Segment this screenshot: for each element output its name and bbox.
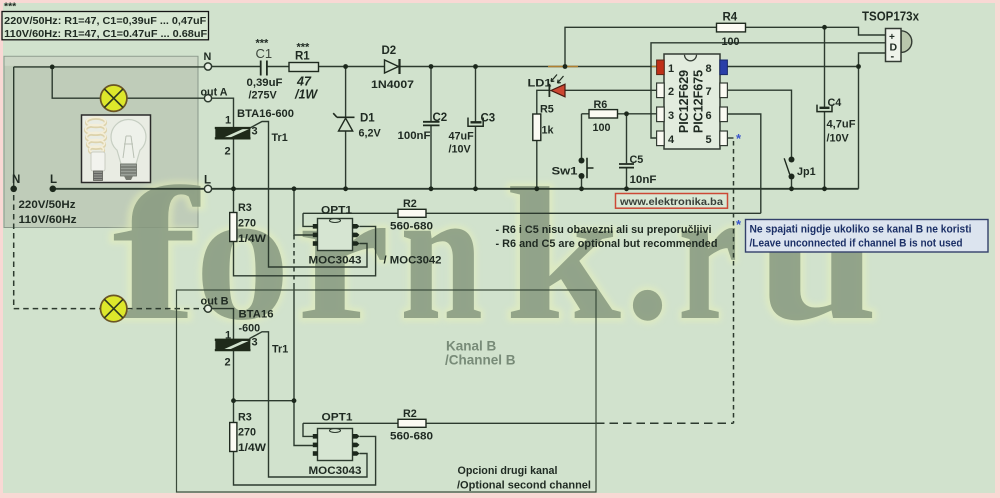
svg-text:4,7uF: 4,7uF [827,119,856,131]
svg-text:100: 100 [722,36,740,48]
svg-text:N: N [204,51,212,63]
svg-text:47uF: 47uF [449,131,475,143]
svg-text:BTA16: BTA16 [239,309,274,321]
svg-text:/ MOC3042: / MOC3042 [384,255,442,267]
svg-text:MOC3043: MOC3043 [309,255,362,267]
svg-text:L: L [50,174,57,186]
svg-text:Jp1: Jp1 [797,166,816,178]
svg-text:***: *** [4,1,17,13]
svg-text:C3: C3 [481,113,496,125]
svg-text:1N4007: 1N4007 [371,79,414,91]
svg-text:OPT1: OPT1 [322,412,353,424]
svg-text:100: 100 [593,122,611,134]
svg-text:10nF: 10nF [630,174,657,186]
svg-text:- R6 and C5 are optional but r: - R6 and C5 are optional but recommended [496,238,718,250]
svg-text:C2: C2 [433,112,448,124]
svg-text:PIC12F629: PIC12F629 [677,70,691,133]
svg-text:R2: R2 [403,198,417,210]
svg-text:R2: R2 [403,408,417,420]
svg-text:Tr1: Tr1 [272,344,288,356]
svg-text:Opcioni drugi kanal: Opcioni drugi kanal [458,465,558,477]
svg-text:R6: R6 [594,99,608,111]
svg-text:270: 270 [238,218,256,230]
svg-text:/Leave unconnected if channel: /Leave unconnected if channel B is not u… [750,238,963,250]
svg-text:8: 8 [706,63,712,75]
svg-text:7: 7 [706,86,712,98]
svg-text:110V/60Hz: R1=47, C1=0.47uF ..: 110V/60Hz: R1=47, C1=0.47uF ... 0.68uF [4,29,207,40]
svg-text:2: 2 [225,146,231,158]
svg-text:D2: D2 [382,45,397,57]
svg-text:k: k [505,150,621,360]
svg-text:0,39uF: 0,39uF [247,77,283,89]
svg-text:r: r [678,150,738,360]
svg-text:/275V: /275V [249,90,278,102]
svg-text:1/4W: 1/4W [238,233,267,245]
svg-text:2: 2 [225,357,231,369]
svg-text:6,2V: 6,2V [359,128,382,140]
svg-text:3: 3 [668,110,674,122]
svg-text:560-680: 560-680 [390,221,433,233]
svg-text:/10V: /10V [449,144,472,156]
svg-text:OPT1: OPT1 [321,205,352,217]
svg-text:560-680: 560-680 [390,431,433,443]
svg-text:/Optional second channel: /Optional second channel [457,480,591,492]
svg-text:R1: R1 [295,51,310,63]
svg-text:220V/50Hz: R1=47, C1=0,39uF ..: 220V/50Hz: R1=47, C1=0,39uF ... 0,47uF [4,16,206,27]
svg-text:270: 270 [238,427,256,439]
svg-text:N: N [12,174,20,186]
svg-text:R3: R3 [238,202,252,214]
svg-text:LD1: LD1 [528,78,552,90]
svg-text:TSOP173x: TSOP173x [862,10,919,24]
svg-text:C5: C5 [630,154,644,166]
svg-text:C1: C1 [256,46,273,61]
svg-text:3: 3 [252,337,258,349]
svg-text:Tr1: Tr1 [272,132,288,144]
svg-text:47: 47 [296,75,312,89]
svg-text:-: - [891,51,895,63]
svg-text:www.elektronika.ba: www.elektronika.ba [619,196,723,208]
svg-text:out B: out B [201,296,229,308]
svg-text:f: f [112,150,202,360]
svg-text:1k: 1k [542,125,555,137]
svg-text:1: 1 [668,63,674,75]
svg-text:/10V: /10V [827,133,850,145]
svg-text:/1W: /1W [294,88,318,102]
svg-text:D1: D1 [360,113,375,125]
svg-text:2: 2 [668,86,674,98]
svg-text:1: 1 [225,330,231,342]
svg-text:4: 4 [668,134,675,146]
svg-text:MOC3043: MOC3043 [309,465,362,477]
svg-text:3: 3 [252,126,258,138]
svg-text:Kanal B: Kanal B [446,339,497,354]
svg-text:1/4W: 1/4W [238,442,267,454]
svg-text:/Channel B: /Channel B [445,353,516,368]
svg-text:u: u [756,150,878,360]
svg-text:-600: -600 [239,323,261,335]
svg-text:Ne spajati nigdje ukoliko se k: Ne spajati nigdje ukoliko se kanal B ne … [750,224,972,236]
svg-text:1: 1 [225,115,231,127]
svg-text:5: 5 [706,134,712,146]
svg-text:220V/50Hz: 220V/50Hz [19,199,77,211]
svg-text:R3: R3 [238,412,252,424]
svg-text:out A: out A [201,87,228,99]
svg-text:6: 6 [706,110,712,122]
svg-text:L: L [204,175,211,187]
svg-text:BTA16-600: BTA16-600 [237,108,294,120]
svg-text:- R6 i C5 nisu obavezni ali su: - R6 i C5 nisu obavezni ali su preporučl… [496,224,712,236]
svg-text:R5: R5 [540,104,554,116]
svg-text:PIC12F675: PIC12F675 [692,70,706,133]
svg-text:110V/60Hz: 110V/60Hz [19,214,78,226]
svg-text:100nF: 100nF [398,130,431,142]
svg-text:C4: C4 [828,97,842,109]
svg-text:Sw1: Sw1 [552,166,578,178]
svg-text:R4: R4 [723,12,738,24]
